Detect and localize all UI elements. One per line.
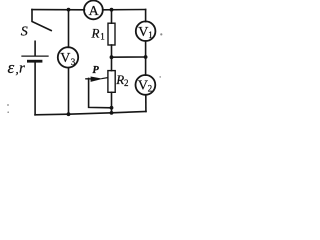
voltmeter V2 circle: [136, 75, 156, 95]
wire: R2 top lead: [111, 57, 113, 70]
battery plate long (positive): [22, 55, 48, 57]
wire: battery to bottom-left corner: [34, 62, 36, 115]
node: wiper return junction: [110, 106, 114, 110]
wire: R1 top lead: [111, 10, 113, 24]
node: R1 top junction: [110, 8, 114, 12]
svg-text:r: r: [19, 61, 25, 77]
wire: R1 bottom lead: [111, 45, 113, 57]
svg-text:2: 2: [124, 78, 129, 88]
node: V3 top junction: [67, 8, 71, 12]
voltmeter V1 circle: [136, 21, 156, 41]
svg-text:3: 3: [71, 57, 76, 67]
wire: wiper arrow shaft: [86, 78, 93, 80]
battery plate short (negative): [28, 60, 41, 63]
svg-text:V: V: [60, 51, 70, 66]
svg-text:P: P: [92, 65, 99, 76]
node: V3 bottom junction: [67, 112, 71, 116]
wire: V3 branch upper: [68, 10, 70, 48]
wire: V2 to bottom-right corner: [145, 95, 147, 112]
ammeter A circle: [84, 1, 103, 20]
wire: switch lower terminal to battery: [34, 41, 36, 55]
wire: middle horizontal: [112, 56, 146, 58]
svg-text:S: S: [21, 25, 28, 40]
svg-text:V: V: [138, 25, 148, 40]
wire: top-left horizontal: [32, 9, 84, 11]
wire: mid junction to V2: [145, 57, 147, 75]
svg-text:A: A: [89, 4, 100, 19]
svg-text:1: 1: [100, 32, 105, 42]
svg-text:1: 1: [148, 30, 153, 40]
resistor R1 box: [108, 23, 115, 45]
svg-text:R: R: [115, 72, 124, 87]
svg-text:2: 2: [148, 83, 153, 93]
wire: bottom horizontal: [35, 112, 146, 115]
wire: potentiometer wiper return: [89, 78, 112, 107]
potentiometer R2 box: [108, 71, 115, 93]
voltmeter V3 circle: [58, 47, 78, 67]
wire: V1 top lead from corner: [145, 10, 147, 22]
wire: ammeter to top-right corner: [103, 9, 146, 11]
switch S: [32, 10, 51, 31]
node: mid-right junction: [144, 55, 148, 59]
wire: V1 bottom to mid junction: [145, 41, 147, 57]
wire: R2 bottom lead: [111, 92, 113, 113]
svg-text:ε: ε: [8, 58, 15, 77]
wire: V3 branch lower: [68, 68, 70, 115]
svg-text:R: R: [91, 26, 100, 41]
wire: wiper arrow tip line: [102, 78, 108, 79]
node: R2 bottom junction: [110, 111, 114, 115]
svg-text:V: V: [138, 79, 148, 94]
node: mid-left junction: [110, 55, 114, 59]
potentiometer wiper arrowhead: [91, 77, 103, 82]
